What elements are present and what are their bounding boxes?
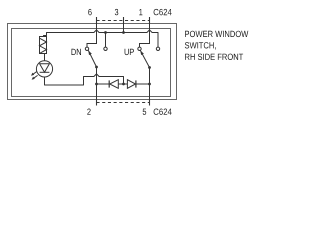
diode D2 (cathode right)	[127, 80, 135, 89]
component name text	[185, 31, 249, 60]
diode line (horizontal wire between blades)	[97, 83, 150, 85]
wire pin 6 to DN switch left contact	[87, 17, 97, 47]
UP switch right contact	[156, 47, 159, 50]
LED arrow 2	[32, 75, 38, 79]
pin 3 tick	[123, 17, 125, 23]
DN switch right contact	[104, 47, 107, 50]
DN switch left contact	[85, 47, 88, 50]
junction dot diode line middle	[122, 83, 125, 86]
connector C624 top dashed line	[97, 20, 150, 22]
wire bus to DN right contact	[105, 33, 107, 48]
connector C624 top label	[154, 9, 172, 15]
bus wire from resistor top, hops over pin6 and pin1 wires, down to UP right contact	[44, 30, 159, 47]
wire UP blade to diode line / pin 5	[149, 68, 151, 106]
connector C624 bottom dashed line	[97, 102, 150, 104]
resistor (illumination)	[40, 37, 47, 54]
junction dot diode line right	[148, 83, 151, 86]
UP label	[125, 49, 134, 55]
pin 1 tick	[149, 17, 151, 23]
DN switch blade	[88, 50, 98, 68]
pin 3 label	[115, 9, 119, 15]
junction dot bus / DN right contact	[104, 31, 107, 34]
pin 5 label	[143, 109, 147, 115]
diode D1 (cathode left)	[109, 80, 118, 89]
pin 5 tick	[149, 99, 151, 106]
DN label	[72, 49, 82, 55]
pin 1 label	[139, 9, 142, 15]
pin 6 label	[88, 9, 91, 15]
pin 2 label	[87, 109, 90, 115]
pin 2 tick	[96, 99, 98, 106]
wire pin 3 to bus	[123, 17, 125, 33]
UP switch left contact	[138, 47, 141, 50]
wire pin 1 to UP switch left contact	[140, 17, 150, 47]
LED indicator lamp	[36, 61, 52, 77]
LED arrow 1	[31, 71, 37, 75]
connector C624 bottom label	[154, 109, 172, 115]
pin 6 tick	[96, 17, 98, 23]
junction dot diode line left	[95, 83, 98, 86]
wire diode middle junction to LED cathode (hops over DN blade wire)	[45, 74, 124, 85]
component inner box	[12, 29, 171, 97]
wire DN blade to diode line / pin 2	[96, 67, 98, 106]
junction dot bus / pin 3	[122, 31, 125, 34]
wire resistor to LED	[44, 54, 46, 61]
UP switch blade	[140, 50, 151, 69]
component outer box (power window switch)	[8, 24, 177, 100]
